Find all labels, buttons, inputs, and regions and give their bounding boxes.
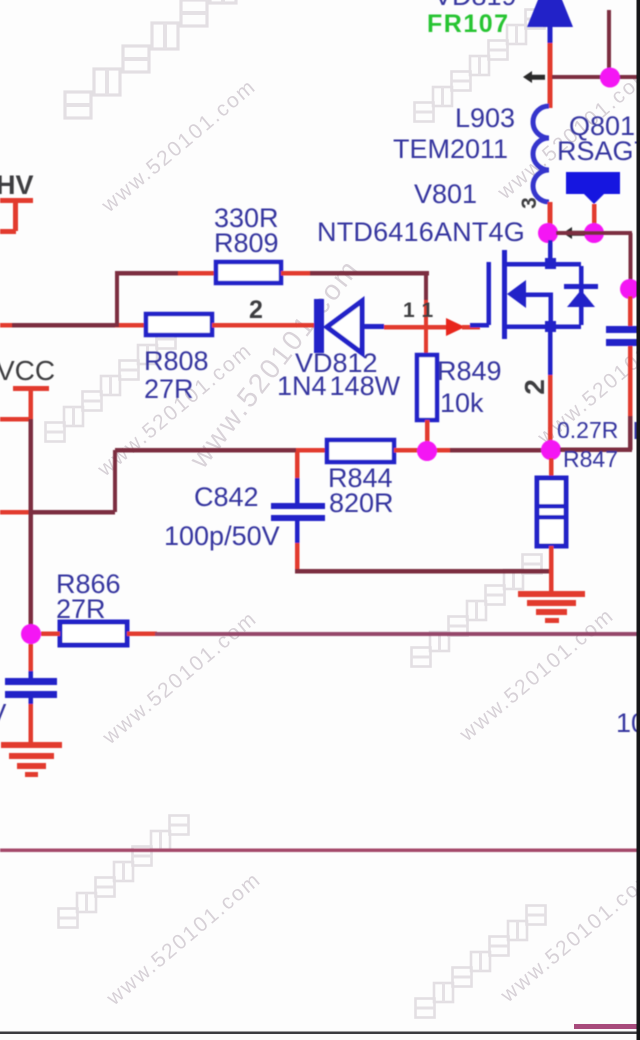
transistor Q801 tab: [566, 172, 620, 204]
body line: [524, 293, 553, 298]
drain lead: [504, 262, 581, 267]
wire R866 long output: [155, 632, 640, 636]
wire VCC stub left: [0, 417, 30, 422]
wire R866 right: [127, 632, 157, 637]
capacitor VCC filter: [5, 644, 57, 744]
wire VCC rail down: [29, 419, 34, 625]
inductor L903: [533, 106, 549, 202]
svg-text:R849: R849: [437, 356, 502, 386]
resistor R844: [327, 440, 394, 462]
node VCC: [0, 355, 55, 419]
junction dot source/R847: [541, 440, 561, 460]
diode VD819: [527, 0, 573, 43]
svg-text:11: 11: [403, 299, 434, 322]
svg-text:RSAG7: RSAG7: [557, 136, 640, 166]
body diode triangle: [567, 290, 595, 307]
svg-text:C842: C842: [194, 482, 259, 512]
wire VD819 down: [548, 43, 553, 108]
svg-text:27R: 27R: [144, 374, 194, 404]
wire right vertical to dot: [629, 233, 633, 283]
gate lead: [470, 323, 489, 328]
svg-text:R808: R808: [144, 346, 209, 376]
wire L903 bottom: [548, 202, 553, 232]
pin arrow 1 (L903): [523, 71, 545, 83]
value fragment next to 0.27R: [635, 422, 640, 439]
wire top node horizontal: [552, 75, 640, 79]
svg-text:27R: 27R: [56, 594, 106, 624]
gate bar: [487, 262, 492, 325]
node HV: [0, 170, 34, 234]
svg-text:TEM2011: TEM2011: [393, 134, 508, 164]
svg-text:HV: HV: [0, 170, 34, 200]
capacitor C842: [271, 452, 325, 573]
body arrow: [507, 280, 526, 308]
svg-text:3: 3: [518, 197, 541, 209]
wire dot to drain blue: [548, 240, 553, 264]
svg-text:1N4148W: 1N4148W: [277, 371, 401, 401]
wire R809 left drop: [115, 271, 119, 327]
svg-text:2: 2: [249, 296, 263, 324]
junction dot top: [600, 68, 620, 88]
body-source vertical: [549, 293, 554, 327]
svg-text:R809: R809: [214, 228, 279, 258]
wire R844 right: [394, 448, 454, 453]
wire VD812 to gate: [384, 325, 446, 330]
wire net R808 left (gate drive input): [0, 323, 14, 328]
body diode vertical: [579, 266, 584, 325]
wire R849 bottom: [425, 420, 430, 445]
svg-text:0.27R: 0.27R: [557, 417, 618, 443]
main snubber node wire y450: [115, 448, 300, 453]
schematic sheet border bottom: [0, 1032, 640, 1035]
svg-text:100p/50V: 100p/50V: [164, 521, 280, 551]
ground (right): [518, 591, 585, 623]
wire drop to R849 node: [424, 273, 428, 303]
capacitor snubber right: [606, 296, 638, 450]
svg-text:L903: L903: [455, 103, 515, 133]
resistor R847 symbol: [537, 458, 566, 592]
wire bus line full width: [0, 849, 640, 853]
svg-text:www.520101.com: www.520101.com: [455, 604, 619, 747]
channel bar: [502, 250, 507, 339]
svg-text:FR107: FR107: [427, 10, 510, 38]
resistor R808: [146, 314, 212, 335]
wire R809 right: [281, 271, 314, 276]
resistor R849: [417, 355, 437, 420]
junction dot snubber: [620, 279, 640, 299]
svg-text:www.520101.com: www.520101.com: [102, 868, 266, 1011]
bus line bottom right: [574, 1024, 640, 1029]
wire left leg of node down to VCC rail: [113, 450, 117, 512]
wire R809 left: [117, 271, 181, 276]
source junction square: [545, 321, 556, 332]
junction dot VCC/R866: [21, 624, 41, 644]
drain junction square: [545, 258, 556, 269]
source lead: [504, 325, 581, 330]
diode VD812: [314, 299, 384, 353]
wire arrow to gate: [462, 325, 480, 330]
wire C842 bottom to ground node: [295, 569, 551, 574]
arrow gate (red): [446, 318, 465, 336]
svg-text:820R: 820R: [329, 488, 394, 518]
wire top right vertical: [607, 10, 611, 77]
resistor R866: [60, 622, 127, 645]
junction dot R849/R844: [417, 441, 437, 461]
svg-text:2: 2: [519, 379, 550, 395]
pin arrow (between dots): [563, 227, 585, 239]
svg-text:V801: V801: [414, 179, 477, 209]
mosfet V801: [470, 250, 598, 339]
svg-text:NTD6416ANT4G: NTD6416ANT4G: [317, 217, 525, 247]
wire Q801 tab down: [592, 204, 597, 228]
junction dot drain: [538, 223, 558, 243]
wire node to snubber cap corner: [560, 448, 632, 453]
wire R808 right: [212, 323, 314, 328]
svg-text:R847: R847: [563, 446, 618, 472]
svg-text:100: 100: [616, 708, 640, 738]
wire drain node horizontal: [556, 231, 632, 235]
page edge bar right: [637, 0, 640, 1040]
ground (left): [1, 742, 62, 777]
wire dot to R866: [41, 632, 60, 637]
wire mosfet source down: [548, 329, 553, 377]
svg-text:V: V: [0, 698, 7, 728]
body diode bar: [564, 284, 598, 289]
svg-text:10k: 10k: [440, 388, 484, 418]
resistor R809: [216, 262, 281, 283]
junction dot Q801: [584, 223, 604, 243]
svg-text:VCC: VCC: [0, 355, 55, 386]
